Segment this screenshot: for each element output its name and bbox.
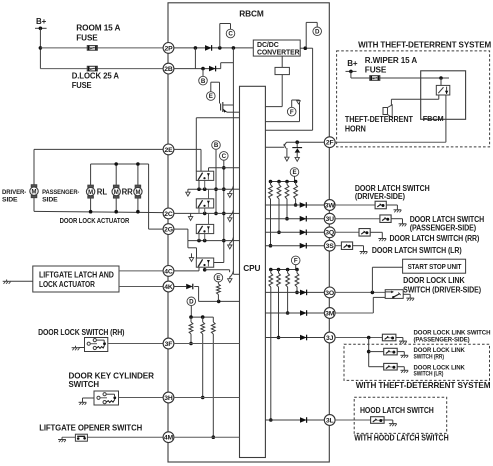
svg-text:LIFTGATE OPENER SWITCH: LIFTGATE OPENER SWITCH (39, 423, 142, 432)
svg-text:DRIVER-: DRIVER- (2, 189, 26, 196)
svg-text:3U: 3U (325, 216, 334, 223)
svg-text:DOOR LATCH SWITCH (RR): DOOR LATCH SWITCH (RR) (390, 234, 480, 243)
svg-text:SIDE: SIDE (2, 197, 18, 204)
svg-text:DOOR LOCK ACTUATOR: DOOR LOCK ACTUATOR (60, 216, 130, 225)
svg-text:3W: 3W (325, 202, 336, 209)
svg-text:3Q: 3Q (325, 230, 334, 237)
svg-text:M: M (135, 190, 140, 196)
svg-text:B+: B+ (36, 17, 47, 26)
svg-text:WITH THEFT-DETERRENT SYSTEM: WITH THEFT-DETERRENT SYSTEM (358, 40, 491, 50)
svg-text:3J: 3J (326, 335, 334, 342)
svg-text:F: F (290, 109, 294, 116)
svg-text:F: F (294, 258, 298, 265)
svg-text:4K: 4K (164, 284, 173, 291)
svg-text:DC/DC: DC/DC (257, 42, 279, 49)
svg-text:D.LOCK 25 A: D.LOCK 25 A (72, 71, 120, 80)
svg-text:4C: 4C (164, 268, 173, 275)
svg-text:FBCM: FBCM (423, 114, 444, 123)
svg-text:M: M (88, 190, 93, 196)
svg-text:2F: 2F (326, 140, 334, 147)
svg-text:E: E (209, 93, 213, 100)
svg-text:E: E (292, 169, 296, 176)
svg-text:C: C (222, 153, 227, 160)
svg-text:DOOR LATCH SWITCH (LR): DOOR LATCH SWITCH (LR) (372, 246, 462, 255)
svg-text:FUSE: FUSE (72, 81, 93, 90)
svg-text:RR: RR (122, 188, 134, 197)
svg-text:ROOM 15 A: ROOM 15 A (76, 24, 120, 33)
svg-text:RL: RL (97, 188, 108, 197)
svg-text:2E: 2E (164, 147, 173, 154)
svg-text:3H: 3H (164, 395, 173, 402)
svg-text:START STOP UNIT: START STOP UNIT (408, 264, 463, 271)
svg-text:3F: 3F (165, 341, 173, 348)
svg-text:PASSENGER-: PASSENGER- (42, 189, 79, 196)
svg-text:E: E (216, 275, 220, 282)
svg-text:CPU: CPU (243, 263, 260, 273)
svg-text:B: B (214, 142, 219, 149)
svg-text:D: D (315, 29, 320, 36)
svg-text:3M: 3M (325, 310, 335, 317)
svg-text:3S: 3S (326, 243, 335, 250)
svg-text:2C: 2C (164, 211, 173, 218)
svg-text:3L: 3L (326, 417, 334, 424)
svg-text:(PASSENGER-SIDE): (PASSENGER-SIDE) (410, 223, 477, 232)
svg-text:DOOR LOCK SWITCH (RH): DOOR LOCK SWITCH (RH) (38, 328, 125, 337)
svg-text:WITH THEFT-DETERRENT SYSTEM: WITH THEFT-DETERRENT SYSTEM (356, 380, 491, 390)
svg-text:B+: B+ (347, 59, 358, 68)
svg-text:RBCM: RBCM (239, 9, 264, 19)
svg-text:HORN: HORN (345, 125, 366, 134)
svg-text:LOCK ACTUATOR: LOCK ACTUATOR (39, 280, 95, 289)
svg-text:DOOR LOCK LINK: DOOR LOCK LINK (403, 276, 465, 285)
svg-text:THEFT-DETERRENT: THEFT-DETERRENT (345, 115, 413, 124)
svg-text:SWITCH (LR): SWITCH (LR) (414, 371, 444, 378)
svg-text:2P: 2P (164, 45, 173, 52)
svg-text:2B: 2B (164, 66, 173, 73)
svg-text:(PASSENGER-SIDE): (PASSENGER-SIDE) (414, 336, 470, 343)
svg-text:SWITCH (RR): SWITCH (RR) (414, 354, 445, 361)
svg-text:2G: 2G (164, 227, 173, 234)
svg-text:3O: 3O (325, 290, 334, 297)
svg-text:C: C (228, 31, 233, 38)
svg-text:(DRIVER-SIDE): (DRIVER-SIDE) (355, 192, 405, 201)
svg-text:HOOD LATCH SWITCH: HOOD LATCH SWITCH (360, 406, 434, 415)
svg-text:SIDE: SIDE (42, 197, 58, 204)
svg-text:FUSE: FUSE (365, 66, 387, 75)
svg-text:LIFTGATE LATCH AND: LIFTGATE LATCH AND (39, 270, 114, 279)
svg-text:FUSE: FUSE (76, 33, 98, 42)
svg-text:M: M (114, 190, 119, 196)
svg-text:SWITCH (DRIVER-SIDE): SWITCH (DRIVER-SIDE) (403, 286, 481, 295)
svg-text:4M: 4M (164, 435, 174, 442)
svg-text:SWITCH: SWITCH (69, 380, 100, 389)
svg-text:WITH HOOD LATCH SWITCH: WITH HOOD LATCH SWITCH (354, 433, 448, 443)
svg-text:D: D (189, 299, 194, 306)
svg-text:B: B (201, 78, 206, 85)
svg-text:CONVERTER: CONVERTER (257, 49, 300, 56)
svg-text:M: M (32, 190, 37, 196)
svg-text:R.WIPER 15 A: R.WIPER 15 A (365, 56, 418, 65)
